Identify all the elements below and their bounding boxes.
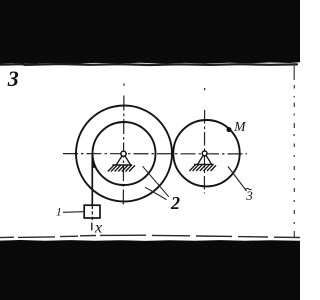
- bottom frame line (broken): [0, 235, 300, 237]
- leader line to label 3 (wheel): [228, 167, 247, 192]
- ground line O1: [112, 164, 132, 166]
- svg-text:M: M: [233, 119, 246, 134]
- svg-text:2: 2: [170, 193, 180, 213]
- x axis tick below block: [91, 223, 93, 231]
- vertical center line, right wheel: [204, 88, 206, 90]
- point M on wheel 3: [227, 127, 232, 132]
- pivot triangle O1: [116, 156, 130, 165]
- leader line to label 1: [63, 211, 84, 214]
- top black scan band: [0, 0, 300, 64]
- svg-text:3: 3: [7, 66, 19, 91]
- svg-text:1: 1: [56, 207, 62, 219]
- vertical center line, big pulley: [123, 84, 125, 86]
- bottom black scan band: [0, 240, 300, 300]
- pivot pin O1 (big pulley): [121, 151, 126, 156]
- top frame line: [0, 64, 297, 65]
- cord from pulley to load: [91, 155, 93, 206]
- wheel 3 circle: [173, 120, 239, 186]
- svg-text:x: x: [94, 219, 102, 236]
- leader lines to label 2 (pulley): [143, 166, 169, 197]
- ground line O2: [194, 163, 214, 165]
- right frame line (broken vertical): [293, 63, 295, 238]
- hatching O1: [108, 165, 135, 171]
- pulley 2 inner circle: [93, 122, 156, 185]
- svg-text:3: 3: [245, 188, 253, 203]
- dashed cord inside block: [91, 206, 93, 220]
- pulley 2 outer circle: [76, 106, 172, 202]
- tilde over label 3: [245, 188, 251, 189]
- pivot pin O2 (right wheel): [202, 151, 207, 156]
- horizontal center line (dash-dot through both centers): [63, 153, 247, 155]
- load 1 (block): [84, 205, 100, 218]
- pivot triangle O2: [198, 155, 212, 164]
- cord tangency blob on inner circle: [91, 155, 96, 169]
- hatching O2: [189, 165, 216, 171]
